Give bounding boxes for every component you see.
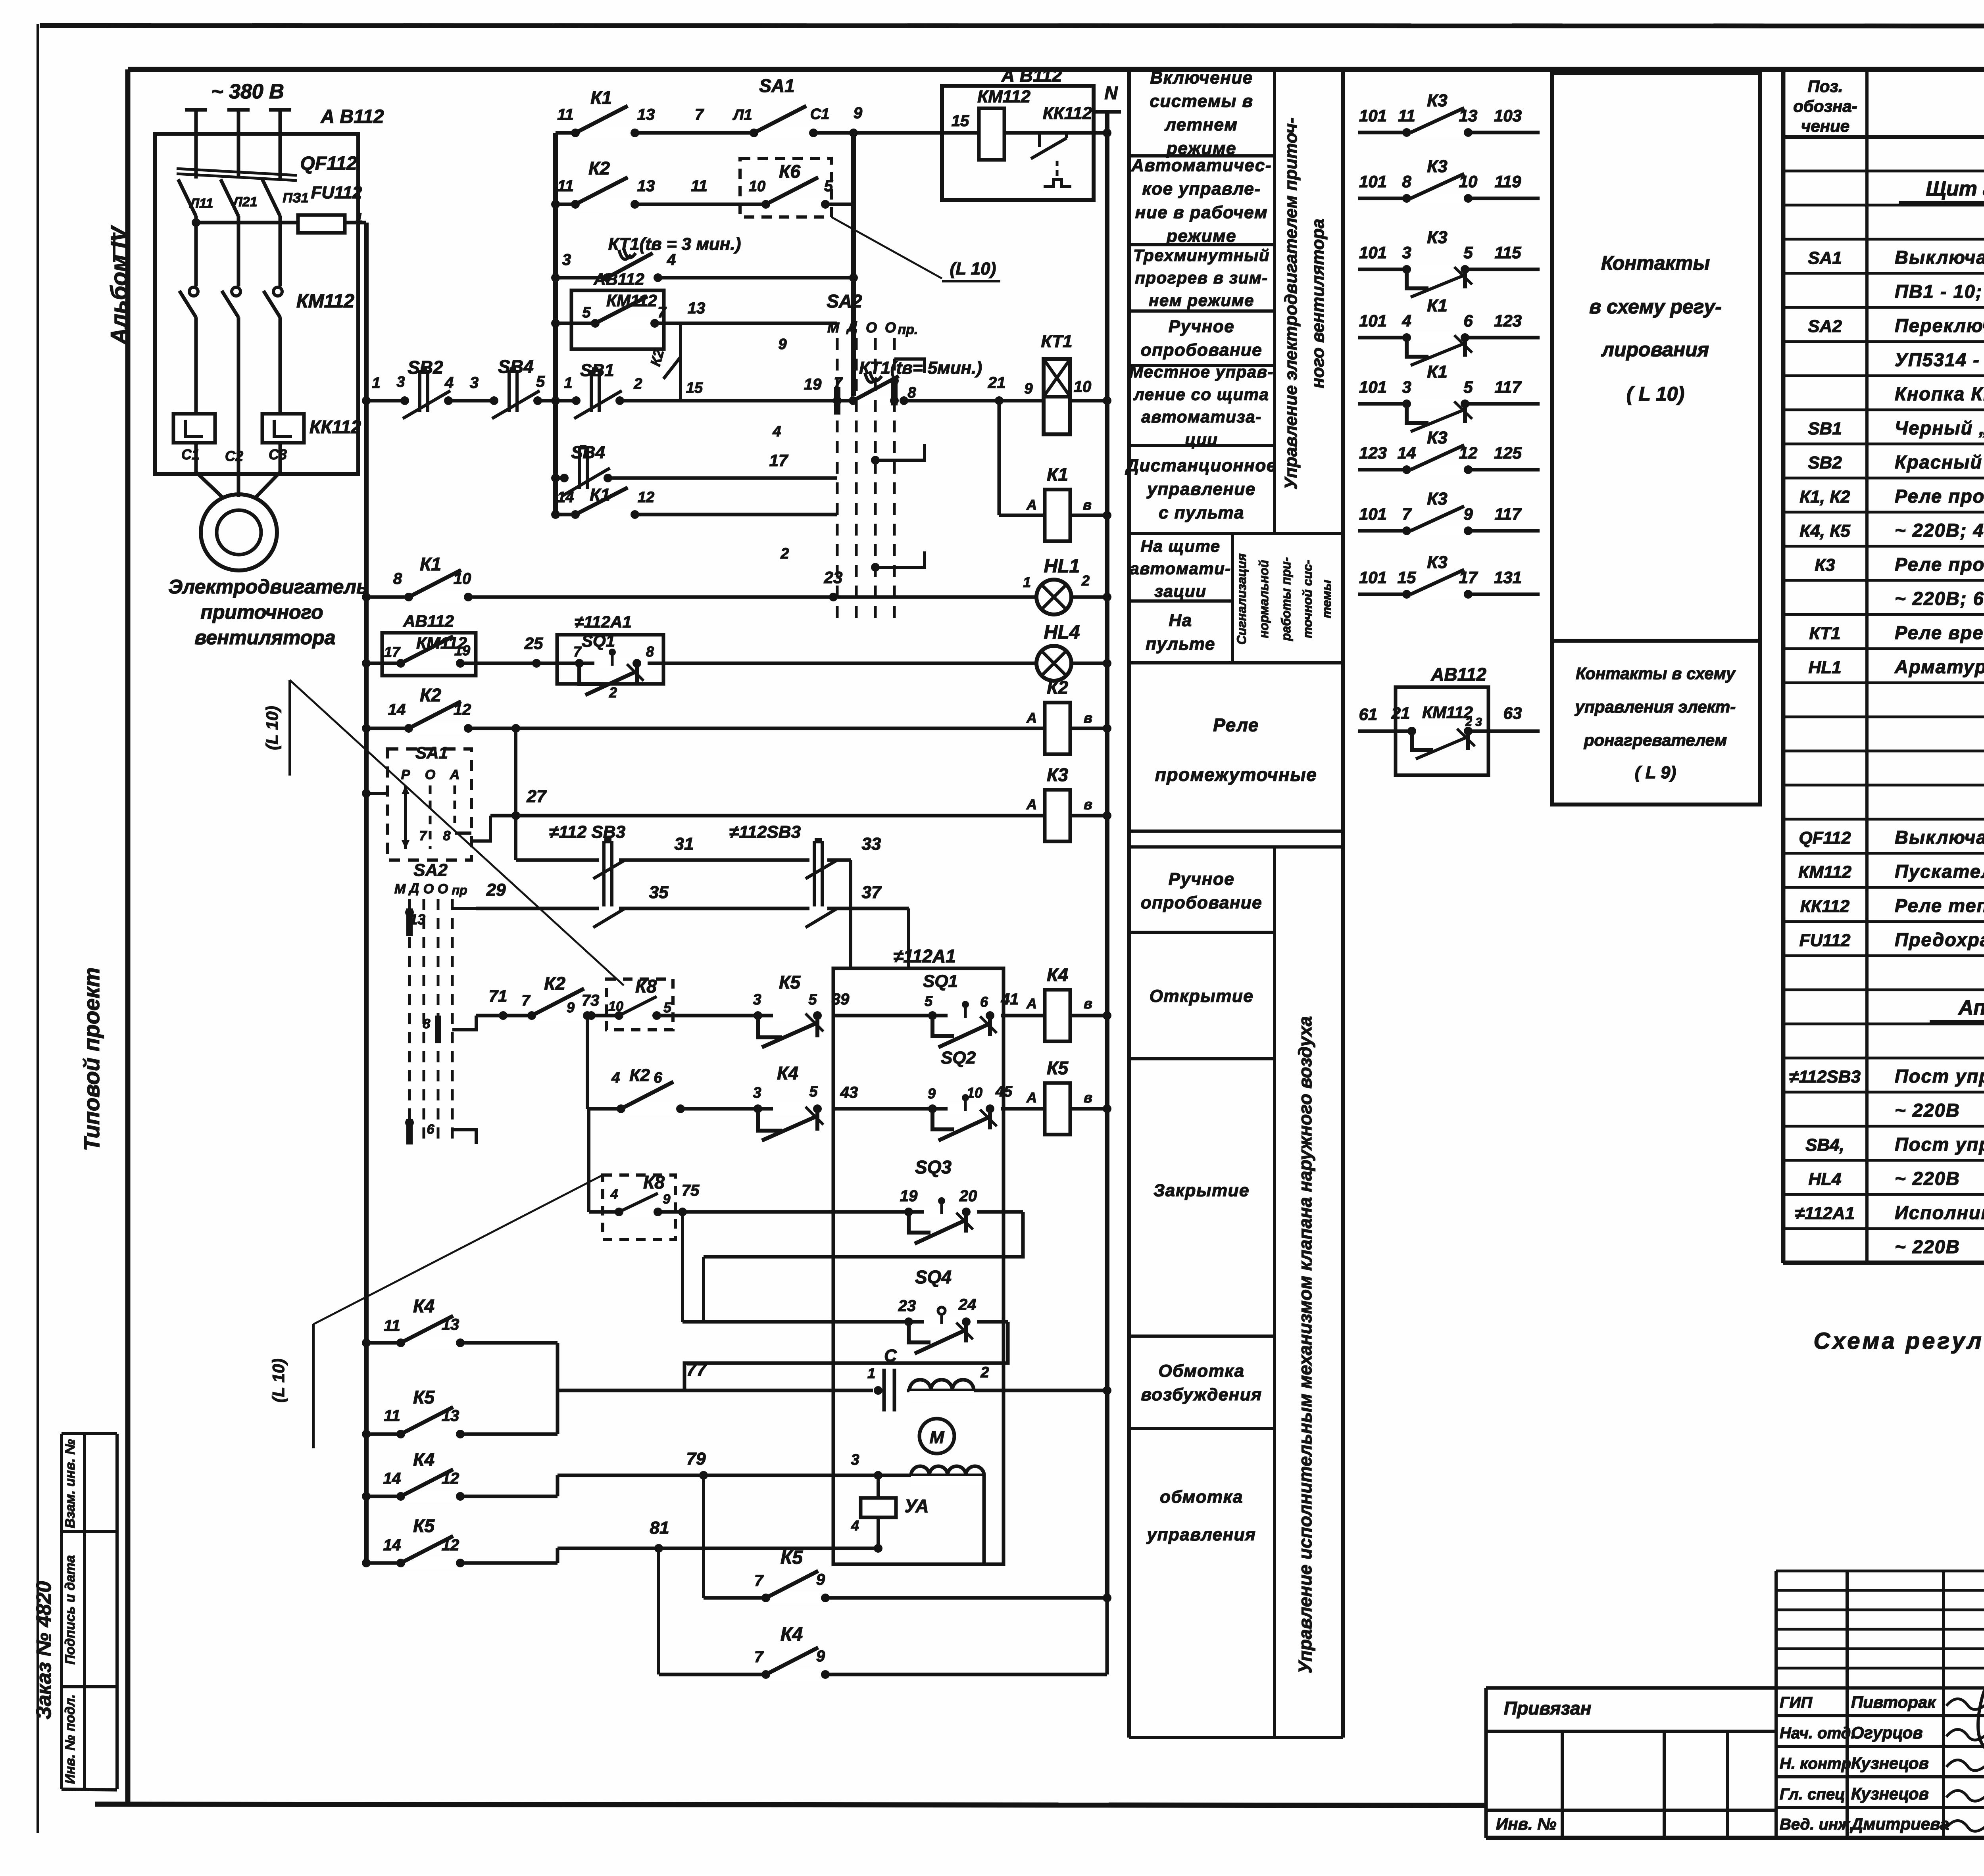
svg-text:7: 7 (1402, 505, 1412, 523)
svg-text:2: 2 (980, 1364, 989, 1381)
svg-text:101: 101 (1359, 568, 1387, 587)
svg-text:Автоматичес-: Автоматичес- (1131, 156, 1272, 175)
svg-text:5: 5 (1463, 243, 1473, 262)
svg-text:с пульта: с пульта (1159, 503, 1244, 522)
svg-text:SB4,: SB4, (1805, 1135, 1844, 1155)
svg-text:5: 5 (824, 177, 833, 195)
svg-text:77: 77 (686, 1359, 707, 1380)
svg-text:3: 3 (1402, 378, 1411, 396)
svg-text:2: 2 (780, 545, 789, 562)
svg-text:6: 6 (1463, 311, 1473, 330)
svg-text:SB4: SB4 (571, 443, 605, 462)
svg-text:11: 11 (557, 177, 574, 195)
svg-text:К2: К2 (544, 973, 565, 994)
svg-text:Привязан: Привязан (1504, 1698, 1591, 1719)
svg-text:КК112: КК112 (310, 417, 361, 437)
svg-text:43: 43 (840, 1084, 858, 1101)
svg-text:Л1: Л1 (732, 107, 752, 123)
svg-text:SB2: SB2 (408, 357, 443, 378)
svg-text:Гл. спец: Гл. спец (1780, 1786, 1845, 1803)
svg-text:119: 119 (1495, 172, 1522, 191)
svg-text:103: 103 (1494, 106, 1522, 125)
svg-text:SA2: SA2 (413, 860, 448, 880)
svg-text:20: 20 (959, 1187, 977, 1205)
svg-text:9: 9 (928, 1085, 936, 1102)
svg-text:31: 31 (675, 834, 694, 854)
svg-text:опробование: опробование (1141, 340, 1263, 360)
svg-text:К3: К3 (1427, 228, 1448, 247)
svg-text:Аппаратура по месту: Аппаратура по месту (1958, 996, 1984, 1019)
svg-text:9: 9 (1463, 505, 1473, 523)
svg-text:( L 10): ( L 10) (1626, 383, 1684, 405)
svg-text:О: О (425, 767, 435, 782)
svg-text:ного вентилятора: ного вентилятора (1308, 219, 1328, 388)
svg-text:14: 14 (388, 701, 406, 718)
svg-text:8: 8 (1402, 172, 1411, 191)
svg-text:М: М (930, 1428, 945, 1447)
svg-text:ние в рабочем: ние в рабочем (1135, 203, 1268, 222)
svg-text:Р: Р (401, 767, 410, 782)
svg-text:14: 14 (383, 1536, 401, 1554)
svg-text:К1: К1 (590, 87, 612, 108)
svg-text:зации: зации (1155, 582, 1207, 600)
svg-text:8: 8 (443, 828, 451, 843)
svg-text:Управление исполнительным ме: Управление исполнительным механизмом кла… (1295, 1016, 1315, 1674)
svg-text:QF112: QF112 (300, 153, 357, 174)
svg-text:≠112А1: ≠112А1 (575, 613, 632, 631)
svg-text:К1: К1 (420, 554, 441, 574)
svg-text:19: 19 (804, 376, 822, 393)
svg-text:4: 4 (610, 1187, 618, 1202)
svg-text:3: 3 (562, 251, 571, 269)
svg-text:Схема регулирования лист: Схема регулирования лист L 9 (1814, 1328, 1984, 1354)
svg-text:К3: К3 (1427, 157, 1448, 176)
svg-text:12: 12 (638, 489, 654, 506)
svg-text:7: 7 (419, 828, 428, 843)
svg-text:Сигнализация: Сигнализация (1234, 553, 1249, 645)
svg-text:SA1: SA1 (415, 743, 448, 762)
svg-text:Л11: Л11 (189, 196, 213, 211)
svg-text:3: 3 (753, 991, 761, 1008)
svg-text:Предохранитель: Предохранитель (1895, 929, 1984, 950)
svg-text:5: 5 (536, 373, 545, 390)
svg-text:13: 13 (688, 300, 706, 317)
svg-text:4: 4 (611, 1070, 620, 1086)
svg-text:4: 4 (1401, 311, 1411, 330)
svg-text:14: 14 (1398, 444, 1416, 462)
svg-text:А: А (1026, 497, 1037, 513)
svg-text:К5: К5 (413, 1515, 435, 1536)
svg-text:работы при-: работы при- (1279, 557, 1293, 641)
svg-text:~ 220В: ~ 220В (1895, 1236, 1960, 1257)
svg-text:Огурцов: Огурцов (1851, 1723, 1923, 1742)
svg-text:Закрытие: Закрытие (1153, 1181, 1250, 1200)
svg-text:К2: К2 (629, 1066, 650, 1085)
svg-text:лирования: лирования (1601, 338, 1709, 361)
svg-text:SQ1: SQ1 (582, 632, 615, 651)
svg-text:( L 9): ( L 9) (1635, 763, 1676, 782)
svg-text:9: 9 (778, 336, 786, 353)
svg-text:4: 4 (772, 423, 781, 440)
svg-text:101: 101 (1359, 243, 1387, 262)
svg-text:2: 2 (633, 376, 642, 392)
svg-text:1: 1 (372, 375, 380, 392)
svg-text:летнем: летнем (1165, 115, 1238, 134)
svg-text:81: 81 (650, 1518, 669, 1538)
svg-text:АВ112: АВ112 (403, 612, 454, 630)
svg-text:Контакты: Контакты (1601, 252, 1710, 274)
svg-text:К6: К6 (779, 161, 800, 182)
svg-text:К8: К8 (635, 976, 657, 997)
svg-text:9: 9 (663, 1192, 671, 1207)
svg-text:10: 10 (1459, 172, 1478, 191)
svg-text:в: в (1083, 497, 1092, 513)
svg-text:7: 7 (657, 304, 667, 321)
svg-text:Альбом IV: Альбом IV (106, 225, 132, 346)
svg-text:нормальной: нормальной (1257, 560, 1271, 638)
svg-text:КК112: КК112 (1800, 897, 1850, 916)
svg-text:О: О (423, 881, 434, 897)
svg-text:~ 220В: ~ 220В (1895, 1100, 1960, 1121)
svg-text:19: 19 (454, 642, 470, 659)
svg-text:Взам. инв. №: Взам. инв. № (63, 1439, 78, 1528)
svg-text:АВ112: АВ112 (593, 270, 644, 288)
svg-text:7: 7 (695, 106, 704, 123)
svg-text:(L 10): (L 10) (269, 1358, 288, 1402)
svg-text:Реле промежуточное РПУ-2-364: Реле промежуточное РПУ-2-36420УЗБ; (1895, 486, 1984, 507)
svg-text:К4: К4 (777, 1063, 798, 1083)
svg-text:117: 117 (1495, 505, 1522, 523)
svg-text:9: 9 (816, 1571, 825, 1588)
svg-text:8: 8 (423, 1016, 431, 1031)
svg-text:Вед. инж.: Вед. инж. (1780, 1816, 1854, 1833)
svg-text:HL4: HL4 (1044, 622, 1080, 643)
svg-text:3: 3 (753, 1085, 761, 1101)
svg-text:1: 1 (867, 1365, 875, 1381)
svg-text:Типовой проект: Типовой проект (79, 967, 104, 1151)
svg-text:УП5314 - Л254. ~ 220В: УП5314 - Л254. ~ 220В (1895, 349, 1984, 370)
svg-text:темы: темы (1319, 580, 1334, 618)
svg-text:SB4: SB4 (498, 356, 533, 377)
svg-text:Местное управ-: Местное управ- (1129, 363, 1274, 381)
svg-text:Реле времени ВС-10-33; ~220: Реле времени ВС-10-33; ~220В (1895, 622, 1984, 643)
svg-text:13: 13 (1459, 106, 1478, 125)
svg-text:К5: К5 (781, 1547, 804, 1568)
svg-text:А: А (1026, 1089, 1037, 1106)
svg-text:в: в (1084, 710, 1092, 726)
svg-text:13: 13 (637, 177, 655, 195)
svg-text:6: 6 (980, 994, 988, 1010)
svg-text:Пост управления кнопочный П: Пост управления кнопочный ПКЕ-222-2УЗ; (1895, 1066, 1984, 1087)
svg-text:Кнопка КЕ011 УЗ исп. 2: Кнопка КЕ011 УЗ исп. 2 (1895, 383, 1984, 404)
svg-text:Кузнецов: Кузнецов (1851, 1754, 1929, 1772)
svg-text:10: 10 (454, 570, 471, 588)
svg-text:Щит автоматизации АД112: Щит автоматизации АД112 (1926, 177, 1984, 200)
svg-text:101: 101 (1359, 378, 1387, 396)
svg-text:17: 17 (384, 644, 401, 660)
svg-text:промежуточные: промежуточные (1155, 764, 1317, 785)
svg-text:12: 12 (1459, 444, 1478, 462)
svg-text:К1: К1 (590, 485, 610, 505)
svg-text:управление: управление (1146, 479, 1255, 499)
svg-text:обозна-: обозна- (1793, 97, 1857, 115)
svg-text:(L 10): (L 10) (263, 706, 281, 750)
svg-text:8: 8 (907, 384, 916, 401)
svg-text:пульте: пульте (1146, 634, 1215, 654)
svg-text:К4: К4 (781, 1624, 803, 1645)
svg-text:7: 7 (573, 643, 582, 660)
svg-text:Исполнительный механизм МЭО-: Исполнительный механизм МЭО-1,6/25; (1895, 1202, 1984, 1223)
svg-text:17: 17 (1459, 568, 1478, 587)
svg-text:вентилятора: вентилятора (194, 626, 335, 649)
svg-text:пр.: пр. (898, 322, 918, 337)
svg-text:SA1: SA1 (1808, 248, 1842, 268)
svg-text:К1, К2: К1, К2 (1799, 487, 1850, 507)
svg-text:≠112SB3: ≠112SB3 (1789, 1067, 1861, 1087)
svg-text:27: 27 (527, 787, 547, 806)
svg-text:автоматиза-: автоматиза- (1141, 407, 1261, 426)
svg-text:9: 9 (567, 999, 575, 1016)
svg-text:3: 3 (851, 1452, 859, 1468)
svg-text:Ручное: Ручное (1169, 317, 1234, 336)
svg-text:3: 3 (470, 374, 479, 392)
svg-text:SQ1: SQ1 (923, 972, 958, 991)
svg-text:М: М (827, 319, 840, 336)
svg-text:115: 115 (1495, 243, 1522, 262)
svg-text:К3: К3 (1427, 428, 1448, 447)
svg-text:15: 15 (1398, 568, 1416, 587)
svg-text:79: 79 (686, 1449, 706, 1469)
svg-text:К1: К1 (1427, 296, 1448, 315)
svg-text:17: 17 (769, 451, 788, 470)
svg-text:приточного: приточного (200, 601, 323, 623)
svg-text:SQ2: SQ2 (941, 1048, 976, 1068)
svg-text:SB1: SB1 (1808, 419, 1842, 438)
svg-text:К4, К5: К4, К5 (1799, 521, 1850, 541)
svg-text:21: 21 (988, 374, 1006, 392)
svg-text:5: 5 (663, 999, 672, 1016)
svg-text:С1: С1 (810, 106, 830, 123)
svg-text:обмотка: обмотка (1160, 1487, 1243, 1507)
svg-text:КТ1: КТ1 (1041, 332, 1073, 351)
svg-text:37: 37 (862, 883, 882, 902)
svg-text:К1: К1 (1427, 362, 1448, 382)
svg-text:11: 11 (1398, 106, 1415, 125)
svg-text:101: 101 (1359, 311, 1387, 330)
svg-text:К2: К2 (420, 685, 441, 705)
svg-text:FU112: FU112 (1799, 931, 1851, 950)
svg-text:О: О (866, 319, 877, 336)
svg-text:29: 29 (486, 880, 506, 900)
svg-text:QF112: QF112 (1799, 828, 1851, 848)
svg-text:5: 5 (1463, 378, 1473, 396)
svg-text:SA2: SA2 (827, 291, 862, 311)
svg-text:Пост управления ПКУ-15.19.33: Пост управления ПКУ-15.19.331-54У2, (1895, 1134, 1984, 1155)
svg-text:HL1: HL1 (1044, 556, 1080, 577)
svg-text:5: 5 (809, 1083, 818, 1100)
svg-text:11: 11 (384, 1317, 400, 1335)
svg-text:Дмитриева: Дмитриева (1850, 1815, 1949, 1833)
svg-text:12: 12 (454, 701, 471, 718)
svg-text:режиме: режиме (1166, 139, 1236, 158)
svg-text:опробование: опробование (1141, 893, 1263, 912)
svg-text:13: 13 (409, 911, 425, 927)
svg-text:4: 4 (851, 1517, 859, 1534)
svg-text:Пивторак: Пивторак (1851, 1693, 1936, 1711)
svg-text:К5: К5 (413, 1387, 435, 1407)
svg-text:10: 10 (608, 999, 623, 1014)
svg-text:А: А (450, 767, 460, 782)
svg-text:Ручное: Ручное (1169, 870, 1234, 889)
svg-text:Реле тепловое: Реле тепловое (1895, 895, 1984, 916)
svg-text:131: 131 (1494, 568, 1522, 587)
svg-text:23: 23 (824, 568, 843, 587)
svg-text:А В112: А В112 (320, 106, 384, 127)
svg-text:прогрев в зим-: прогрев в зим- (1135, 269, 1268, 287)
svg-text:С3: С3 (269, 446, 287, 463)
svg-text:≠112А1: ≠112А1 (893, 946, 955, 966)
svg-text:≠112 SB3: ≠112 SB3 (549, 822, 625, 842)
svg-text:К4: К4 (413, 1296, 434, 1316)
svg-text:5: 5 (582, 304, 591, 321)
svg-text:19: 19 (900, 1187, 918, 1205)
svg-text:9: 9 (1024, 380, 1032, 397)
svg-text:SA1: SA1 (759, 75, 794, 96)
svg-text:К2: К2 (588, 158, 610, 179)
svg-text:14: 14 (383, 1470, 401, 1487)
svg-text:системы в: системы в (1150, 92, 1253, 111)
svg-text:71: 71 (489, 987, 508, 1005)
svg-text:Д: Д (408, 881, 419, 896)
svg-text:13: 13 (442, 1407, 459, 1425)
svg-text:12: 12 (442, 1470, 459, 1487)
svg-text:Открытие: Открытие (1150, 986, 1254, 1006)
svg-text:ление со щита: ление со щита (1133, 385, 1269, 403)
svg-text:УА: УА (905, 1496, 929, 1516)
svg-text:SQ3: SQ3 (915, 1157, 952, 1177)
svg-text:1: 1 (1023, 574, 1031, 590)
svg-text:С: С (884, 1346, 897, 1365)
svg-text:≠112А1: ≠112А1 (1795, 1204, 1855, 1223)
svg-text:FU112: FU112 (311, 183, 362, 202)
svg-text:125: 125 (1494, 444, 1522, 462)
svg-text:КТ1(tв= 5мин.): КТ1(tв= 5мин.) (859, 358, 982, 378)
svg-text:М: М (394, 881, 406, 897)
svg-text:Л21: Л21 (232, 194, 257, 209)
svg-text:Реле: Реле (1213, 715, 1259, 735)
svg-text:10: 10 (1074, 378, 1092, 396)
svg-text:Обмотка: Обмотка (1158, 1361, 1244, 1381)
svg-text:1: 1 (564, 375, 572, 392)
svg-text:15: 15 (952, 112, 969, 130)
svg-text:Контакты в схему: Контакты в схему (1576, 664, 1736, 683)
svg-text:6: 6 (427, 1122, 435, 1137)
svg-text:К3: К3 (1427, 553, 1448, 572)
svg-text:К4: К4 (413, 1449, 434, 1470)
svg-text:Арматура АС44023У2; ~ 220В: Арматура АС44023У2; ~ 220В (1894, 656, 1984, 677)
svg-text:SB2: SB2 (1808, 453, 1842, 472)
svg-text:~ 220В; 4з.+2р: ~ 220В; 4з.+2р (1895, 520, 1984, 541)
svg-text:А В112: А В112 (1001, 65, 1062, 86)
svg-text:Пускатель магнитный: Пускатель магнитный (1895, 861, 1984, 882)
svg-text:25: 25 (524, 634, 543, 653)
svg-text:чение: чение (1801, 117, 1849, 135)
svg-text:~ 220В: ~ 220В (1895, 1168, 1960, 1189)
svg-text:~ 380 В: ~ 380 В (211, 80, 284, 103)
svg-text:На щите: На щите (1141, 537, 1221, 555)
svg-text:Д: Д (846, 318, 857, 334)
svg-text:2: 2 (1081, 572, 1090, 589)
svg-text:Управление электродвигателем: Управление электродвигателем приточ- (1281, 117, 1301, 489)
svg-text:73: 73 (582, 992, 600, 1009)
svg-text:101: 101 (1359, 505, 1387, 523)
svg-text:7: 7 (521, 993, 531, 1009)
svg-text:123: 123 (1359, 444, 1387, 462)
svg-text:10: 10 (749, 178, 765, 195)
svg-text:Красный „ Стоп“: Красный „ Стоп“ (1895, 451, 1984, 472)
svg-text:К4: К4 (1047, 964, 1068, 985)
svg-text:14: 14 (557, 489, 574, 506)
svg-text:ГИП: ГИП (1780, 1694, 1813, 1711)
svg-text:КК112: КК112 (1043, 104, 1092, 123)
svg-text:7: 7 (754, 1648, 764, 1666)
svg-text:~ 220В; 6з.+2р.: ~ 220В; 6з.+2р. (1895, 588, 1984, 609)
svg-text:3: 3 (396, 374, 405, 390)
svg-text:Инв. № подл.: Инв. № подл. (63, 1694, 78, 1784)
svg-text:12: 12 (442, 1536, 459, 1554)
svg-text:КМ112: КМ112 (1798, 862, 1851, 882)
svg-text:А: А (1026, 995, 1037, 1012)
svg-text:К3: К3 (1427, 91, 1448, 110)
svg-text:4: 4 (444, 374, 454, 392)
svg-text:≠112SB3: ≠112SB3 (729, 822, 801, 842)
svg-text:11: 11 (557, 106, 574, 123)
svg-text:11: 11 (691, 177, 707, 195)
svg-text:Кузнецов: Кузнецов (1851, 1784, 1929, 1803)
svg-text:К5: К5 (1047, 1058, 1069, 1078)
svg-text:123: 123 (1494, 311, 1522, 330)
svg-text:33: 33 (862, 834, 881, 854)
svg-text:4: 4 (667, 251, 676, 269)
svg-text:кое управле-: кое управле- (1142, 179, 1261, 199)
svg-text:8: 8 (393, 570, 402, 588)
svg-text:А: А (1026, 796, 1037, 812)
svg-text:5: 5 (925, 993, 933, 1009)
svg-text:Инв. №: Инв. № (1496, 1815, 1556, 1833)
svg-text:SQ4: SQ4 (915, 1267, 952, 1287)
svg-text:КМ112: КМ112 (606, 291, 657, 310)
svg-text:КМ112: КМ112 (296, 291, 354, 312)
svg-text:HL1: HL1 (1808, 658, 1841, 677)
svg-text:7: 7 (754, 1572, 764, 1590)
svg-text:Включение: Включение (1150, 68, 1253, 87)
svg-text:ции: ции (1185, 430, 1218, 449)
svg-text:управления: управления (1146, 1525, 1256, 1544)
svg-text:АВ112: АВ112 (1430, 664, 1486, 685)
svg-text:автомати-: автомати- (1130, 559, 1231, 578)
svg-text:8: 8 (646, 643, 654, 660)
svg-text:61: 61 (1359, 705, 1378, 724)
svg-text:13: 13 (637, 106, 655, 123)
svg-text:21: 21 (1391, 704, 1410, 722)
svg-text:КТ1: КТ1 (1809, 624, 1841, 643)
svg-text:К8: К8 (643, 1172, 665, 1192)
svg-text:Трехминутный: Трехминутный (1133, 246, 1270, 265)
svg-text:117: 117 (1495, 378, 1522, 396)
svg-text:Подпись и дата: Подпись и дата (63, 1555, 78, 1665)
svg-text:35: 35 (649, 883, 669, 902)
svg-text:Дистанционное: Дистанционное (1125, 456, 1277, 475)
